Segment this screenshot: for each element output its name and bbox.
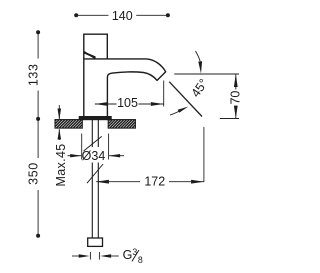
dim 70 line: [235, 74, 237, 118]
G38 left tick: [89, 252, 91, 260]
svg-text:172: 172: [144, 175, 165, 189]
45deg outlet axis line: [169, 82, 202, 117]
dot 133 top: [36, 30, 40, 34]
arrow Max45 up: [58, 129, 62, 140]
svg-text:45°: 45°: [188, 76, 210, 100]
G38 right tick: [98, 252, 100, 260]
dot 350 bottom: [36, 234, 40, 238]
svg-text:105: 105: [117, 96, 138, 110]
arrow 105 left: [95, 102, 108, 106]
arrow dia34 right-pointing: [70, 154, 82, 157]
break slash upper: [84, 136, 102, 151]
base flange: [79, 117, 111, 120]
svg-text:8: 8: [138, 255, 143, 265]
arrow 105 right: [151, 102, 164, 106]
arrow 70 bottom: [234, 106, 238, 119]
G38 left arrow tail: [72, 255, 81, 257]
svg-text:350: 350: [27, 162, 41, 185]
dot 140 left: [74, 13, 78, 17]
dim 105 line: [95, 103, 164, 105]
arrow 70 top: [234, 74, 238, 87]
45deg leader curve: [196, 51, 201, 62]
Max45 top arrow line: [58, 105, 60, 120]
G3/8 nipple: [88, 238, 103, 246]
arrow 172 left: [96, 180, 109, 184]
dim 172 line: [96, 181, 204, 183]
dim 133 line: [37, 32, 39, 119]
svg-text:Ø34: Ø34: [82, 149, 106, 163]
dia34 left extension line: [81, 134, 83, 160]
arrow G38 right-pointing: [79, 254, 90, 257]
faucet body and spout outline: [84, 34, 166, 116]
arrow angle arc head: [178, 107, 189, 113]
arrow Max45 down: [58, 109, 62, 120]
arrow dia34 left-pointing: [109, 154, 121, 157]
svg-text:140: 140: [112, 9, 133, 23]
supply tube: [92, 163, 98, 239]
G38 right arrow tail: [107, 255, 119, 257]
svg-text:G: G: [123, 248, 133, 262]
svg-text:133: 133: [27, 63, 41, 86]
dot 140 right: [166, 13, 170, 17]
svg-text:70: 70: [228, 91, 242, 105]
break slash lower: [87, 164, 103, 183]
172 right extension line: [203, 127, 205, 182]
fraction slash: [132, 250, 139, 261]
dim 350 line: [37, 119, 39, 236]
handle lever wedge: [84, 52, 96, 59]
handle lever chamfer: [84, 51, 95, 58]
deck right slab hatched: [96, 120, 144, 129]
70 top extension line: [174, 73, 239, 75]
arrow G38 left-pointing: [100, 254, 111, 257]
svg-text:Max.45: Max.45: [54, 143, 68, 186]
dia34 right extension line: [108, 134, 110, 160]
Max45 bottom arrow line: [58, 129, 60, 140]
arrow 172 right: [191, 180, 204, 184]
spout tip extension line: [163, 81, 165, 107]
shank pipe below deck: [92, 120, 98, 147]
arrow 45 leader head: [198, 61, 202, 73]
dia34 left arrow tail: [68, 155, 82, 157]
dim 140 line: [76, 14, 168, 16]
70 bottom extension line: [220, 118, 239, 120]
dia34 right arrow tail: [109, 155, 124, 157]
dot 133/350 middle: [36, 117, 40, 121]
angle arc arrow tail: [170, 109, 184, 115]
deck left slab hatched: [42, 120, 90, 129]
